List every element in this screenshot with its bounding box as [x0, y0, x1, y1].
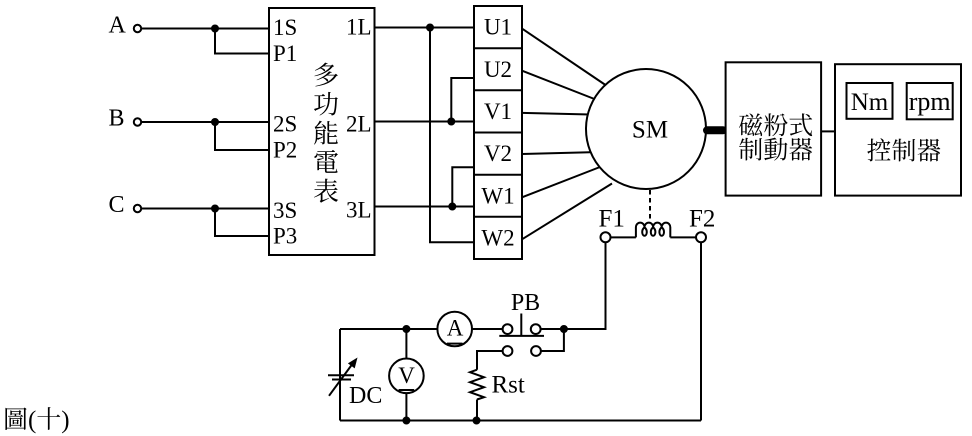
synchronous machine SM — [586, 69, 706, 189]
meter name 多功能電表 vertical — [314, 63, 338, 203]
wire V1 to SM — [522, 113, 590, 115]
svg-text:U2: U2 — [484, 57, 512, 82]
node voltmeter bottom — [403, 418, 409, 424]
wire field coil to F2 — [670, 236, 696, 238]
wire 2L to V1 — [375, 121, 475, 123]
wire bottom rail — [340, 420, 701, 422]
svg-text:V1: V1 — [484, 99, 512, 124]
svg-text:P1: P1 — [273, 41, 297, 66]
resistor Rst zigzag — [470, 370, 484, 400]
multifunction meter box 多功能電表 — [269, 8, 375, 255]
svg-text:W2: W2 — [481, 226, 514, 251]
svg-text:1S: 1S — [273, 15, 297, 40]
svg-text:): ) — [61, 407, 69, 434]
svg-text:F2: F2 — [689, 206, 715, 233]
svg-text:PB: PB — [511, 290, 540, 316]
dashed rotor-to-field link — [649, 190, 651, 222]
node on 1L wire — [427, 25, 433, 31]
terminal F2 — [696, 232, 706, 242]
svg-text:A: A — [109, 13, 127, 39]
wire 1L to U1 — [375, 27, 475, 29]
wire W1 to SM — [522, 167, 600, 197]
wire 3L to W1 — [375, 206, 475, 208]
svg-text:3S: 3S — [273, 198, 297, 223]
wire V2 to SM — [522, 152, 590, 154]
brake label 磁粉式制動器 — [739, 113, 812, 160]
wire V2 to W1 — [452, 167, 474, 206]
terminal C — [134, 205, 141, 212]
wire Rst to bottom rail — [476, 400, 478, 421]
wire F1 to field coil — [611, 236, 636, 238]
wire B junction to P2 — [215, 122, 269, 150]
svg-text:2S: 2S — [273, 112, 297, 137]
svg-text:V2: V2 — [484, 141, 512, 166]
svg-text:B: B — [109, 106, 125, 132]
wire 1L bus down to W2 — [430, 28, 474, 243]
wire voltmeter branch — [405, 329, 407, 421]
terminal B — [134, 118, 141, 125]
node on phase B wire — [212, 119, 218, 125]
wire W2 to SM — [522, 184, 612, 240]
wire node down to PB lower contact — [541, 329, 564, 351]
svg-text:A: A — [447, 315, 464, 340]
svg-text:1L: 1L — [346, 15, 372, 40]
wire F2 down to bottom rail — [700, 242, 702, 420]
rpm display box — [907, 83, 953, 119]
wire U2 to V1 — [451, 78, 474, 122]
controller box 控制器 — [835, 64, 961, 195]
node on phase C wire — [212, 206, 218, 212]
wire B to 2S — [141, 121, 269, 123]
variable DC source symbol — [328, 358, 358, 396]
wire F1 down to pushbutton rail — [564, 242, 606, 329]
svg-text:W1: W1 — [481, 183, 514, 208]
meter pin labels — [273, 15, 372, 249]
node on 3L wire — [449, 204, 455, 210]
controller label 控制器 — [867, 138, 890, 161]
wire C junction to P3 — [215, 209, 269, 237]
stator terminal block — [474, 6, 522, 259]
svg-text:U1: U1 — [484, 15, 512, 40]
node PB output — [561, 326, 567, 332]
svg-text:P2: P2 — [273, 138, 297, 163]
svg-text:SM: SM — [632, 117, 668, 144]
terminal block labels — [481, 15, 514, 251]
wire brake to controller — [821, 130, 835, 132]
ammeter A — [437, 312, 472, 347]
node voltmeter top — [403, 326, 409, 332]
svg-text:Nm: Nm — [851, 89, 889, 116]
wire A to 1S — [141, 28, 269, 30]
Nm display box — [847, 83, 893, 119]
svg-text:V: V — [398, 363, 415, 388]
svg-text:3L: 3L — [346, 198, 372, 223]
field winding coil — [636, 223, 670, 238]
node on 2L wire — [448, 119, 454, 125]
caption 圖(十) — [5, 407, 26, 429]
wire top rail left (DC + through ammeter to PB) — [340, 328, 503, 330]
wire U2 to SM — [522, 71, 597, 100]
shaft coupling — [707, 126, 723, 134]
node Rst bottom — [474, 418, 480, 424]
svg-text:P3: P3 — [273, 224, 297, 249]
terminal F1 — [601, 232, 611, 242]
wire A junction to P1 — [215, 29, 269, 54]
svg-text:F1: F1 — [599, 206, 625, 233]
svg-text:C: C — [109, 192, 125, 218]
node on phase A wire — [212, 26, 218, 32]
svg-text:DC: DC — [349, 383, 382, 409]
svg-text:Rst: Rst — [492, 372, 525, 399]
terminal A — [134, 25, 141, 32]
wire C to 3S — [141, 208, 269, 210]
pushbutton PB — [499, 314, 544, 356]
magnetic powder brake box 磁粉式制動器 — [726, 62, 822, 195]
voltmeter V — [389, 359, 424, 394]
wire PB lower contact to Rst — [477, 351, 503, 370]
wire U1 to SM — [522, 29, 607, 86]
wire PB right contact to node — [541, 328, 564, 330]
svg-text:rpm: rpm — [909, 87, 951, 116]
wire left vertical DC branch — [339, 329, 341, 421]
svg-text:2L: 2L — [346, 112, 372, 137]
svg-text:(: ( — [28, 407, 36, 434]
